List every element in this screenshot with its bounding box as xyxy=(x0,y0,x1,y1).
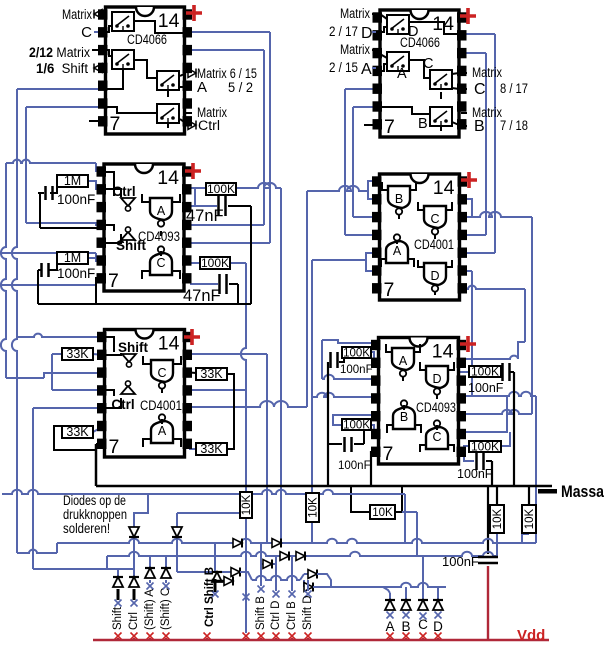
svg-text:Matrix: Matrix xyxy=(340,6,370,21)
svg-text:100K: 100K xyxy=(471,440,499,454)
wire long horizontal y494 from button diodes xyxy=(134,494,148,527)
svg-text:Matrix: Matrix xyxy=(472,65,502,80)
label U4 pin11 Matrix xyxy=(461,72,467,74)
capacitor 100nF IC6 upper-right xyxy=(501,363,504,381)
svg-text:10K: 10K xyxy=(492,508,504,529)
svg-text:7: 7 xyxy=(110,113,121,135)
wire 10K pair tops to bus xyxy=(496,486,498,505)
button column Ctrl D xyxy=(275,556,277,591)
wire corner into rail R1 xyxy=(17,550,57,553)
svg-text:14: 14 xyxy=(157,167,179,189)
button column (Shift) C xyxy=(165,556,167,568)
svg-text:100nF: 100nF xyxy=(442,554,479,569)
button column (Shift) A xyxy=(149,556,151,568)
diode inline R3 upper xyxy=(308,570,317,579)
switch U1d xyxy=(157,104,179,123)
capacitor 100nF IC6 lower-left xyxy=(343,437,346,452)
svg-text:C: C xyxy=(418,617,428,632)
svg-text:14: 14 xyxy=(158,333,180,355)
wire IC5 pin8 to IC6 pin13 xyxy=(465,286,525,289)
svg-text:A: A xyxy=(399,354,408,368)
svg-text:A: A xyxy=(385,619,394,634)
resistor 10K vertical x246 xyxy=(240,492,252,518)
svg-text:C: C xyxy=(157,366,166,380)
svg-text:14: 14 xyxy=(158,10,180,32)
capacitor 100nF IC6 upper-left xyxy=(329,352,332,368)
svg-text:D: D xyxy=(361,25,373,42)
wire 33K2 left black jog to ground riser xyxy=(54,426,96,450)
svg-text:10K: 10K xyxy=(372,507,393,519)
wire IC1 pin5 to left bus column x17 xyxy=(17,88,105,90)
wire IC6 pin4 left xyxy=(312,393,378,397)
IC U6 CD4093 bottom-right xyxy=(379,338,459,465)
power plus U4 xyxy=(460,8,476,24)
svg-text:C: C xyxy=(474,81,486,98)
diode between columns ShiftB CtrlD xyxy=(261,563,276,565)
svg-text:CD4001: CD4001 xyxy=(140,398,182,413)
svg-text:CD4001: CD4001 xyxy=(414,237,454,252)
wire IC1 pin12 to IC2 pin11 xyxy=(184,49,264,51)
svg-text:CD4066: CD4066 xyxy=(400,35,440,50)
svg-text:Shift B: Shift B xyxy=(255,596,267,630)
svg-text:Ctrl: Ctrl xyxy=(111,397,134,412)
resistor 33K IC3 upper-right xyxy=(196,368,227,380)
svg-text:B: B xyxy=(395,192,403,206)
button column Ctrl Shift B xyxy=(214,543,216,572)
svg-text:Shift D: Shift D xyxy=(302,595,314,630)
inverter Shift U2 xyxy=(121,232,135,240)
power plus U1 xyxy=(186,5,202,21)
wire IC6 pin7 to bus xyxy=(371,450,378,452)
gate C U5 xyxy=(424,206,446,228)
svg-text:47nF: 47nF xyxy=(183,287,221,305)
svg-text:Matrix: Matrix xyxy=(340,42,370,57)
svg-text:Shift: Shift xyxy=(112,606,124,630)
resistor 1M upper xyxy=(57,175,88,187)
button column A xyxy=(389,593,391,600)
svg-text:Ctrl: Ctrl xyxy=(198,118,220,133)
wire IC2 pin13 100K to long vertical x281 xyxy=(190,183,281,188)
wire IC2 pin12 tie xyxy=(190,188,195,206)
wire IC6 100K1 right to cap xyxy=(501,371,503,373)
wire 10K horizontal right black riser xyxy=(395,486,402,512)
svg-text:D: D xyxy=(433,619,443,634)
svg-text:7: 7 xyxy=(383,443,394,465)
IC U1 CD4066 top-left xyxy=(106,7,185,134)
svg-text:14: 14 xyxy=(433,177,455,199)
button column C from rail R2 xyxy=(422,556,424,600)
wire IC3 pin2 33K xyxy=(93,354,104,355)
svg-text:5 / 2: 5 / 2 xyxy=(228,80,253,95)
svg-text:33K: 33K xyxy=(66,425,89,439)
wire far-left vertical x6 down to IC3 pin3 xyxy=(1,170,6,378)
wire IC3 pin7 to ground bus xyxy=(96,443,104,445)
svg-text:A: A xyxy=(158,424,167,438)
Vdd decoupling red wire xyxy=(487,566,489,640)
svg-text:14: 14 xyxy=(432,341,454,363)
svg-text:1/6 Shift: 1/6 Shift xyxy=(36,61,88,76)
power plus U2 xyxy=(185,163,201,179)
svg-text:10K: 10K xyxy=(524,508,536,529)
svg-text:2/12 Matrix: 2/12 Matrix xyxy=(29,45,90,60)
capacitor 47nF upper xyxy=(217,196,220,216)
wire rail R3 lower branch xyxy=(303,580,305,587)
inverter Ctrl U3 xyxy=(121,386,135,394)
wire IC6 cap4 right to bus xyxy=(486,460,492,462)
svg-text:7 / 18: 7 / 18 xyxy=(500,118,528,133)
gate C U6 xyxy=(426,427,448,449)
wire IC5 pins1-2 tie xyxy=(368,181,379,199)
svg-text:100K: 100K xyxy=(201,256,229,270)
svg-text:7: 7 xyxy=(384,116,395,138)
diode down at x177 xyxy=(172,527,182,537)
switch U4d xyxy=(430,107,452,126)
resistor 100K IC6 lower-right xyxy=(469,441,501,452)
svg-text:100K: 100K xyxy=(471,365,499,379)
svg-text:47nF: 47nF xyxy=(186,207,224,225)
gate C U3 xyxy=(151,360,173,382)
svg-text:A: A xyxy=(393,244,402,258)
wire rail R2 y556 xyxy=(106,556,108,569)
svg-text:solderen!: solderen! xyxy=(63,521,110,536)
wire rail R1 y543 xyxy=(57,539,536,543)
diode inline R3 lower xyxy=(304,583,313,592)
svg-text:A: A xyxy=(197,79,207,96)
button column D xyxy=(437,587,439,600)
svg-text:B: B xyxy=(474,118,485,135)
wire IC5 pin1 route to IC3 pin10 xyxy=(368,181,379,191)
wire left to IC2 pin7 xyxy=(0,284,96,286)
wire ground bus xyxy=(96,485,552,488)
wire IC2 ground loop xyxy=(39,193,41,228)
wire 1M2 to IC2 pin6 xyxy=(88,258,96,261)
svg-text:100K: 100K xyxy=(343,348,370,360)
wire node left rail into IC2 pin1 with hops xyxy=(5,163,7,170)
button column Ctrl xyxy=(133,569,135,577)
wire IC3 pin5 to left column x33 xyxy=(33,407,104,409)
capacitor 100nF decoupling xyxy=(478,556,498,559)
switch U4c xyxy=(430,70,452,89)
wire IC6 pin11 horizontal with hops xyxy=(458,392,536,396)
svg-text:A: A xyxy=(397,66,407,82)
resistor 100K IC6 upper-right xyxy=(469,366,501,377)
wire IC6 cap3 right black to bus xyxy=(509,371,514,373)
resistor 100K IC2 upper xyxy=(206,183,236,195)
wire IC2 pin9 100K to vertical x246 down to 10K and Vdd xyxy=(190,262,246,264)
Vdd red bus xyxy=(93,639,549,642)
svg-text:D: D xyxy=(408,24,418,40)
svg-text:C: C xyxy=(156,256,165,270)
capacitor 100nF lower-left xyxy=(40,263,43,277)
switch U1b xyxy=(112,50,134,69)
capacitor 100nF IC6 lower-right xyxy=(475,452,478,470)
power plus U3 xyxy=(184,329,200,345)
svg-text:2 / 15: 2 / 15 xyxy=(329,60,358,75)
wire U4 pin7 stub xyxy=(364,124,373,126)
wire IC6 pin12 to 100K right xyxy=(458,371,469,373)
switch U1c xyxy=(157,71,179,90)
svg-text:2 / 17: 2 / 17 xyxy=(329,24,358,39)
button column x246 to Vdd xyxy=(243,594,250,601)
wire U5 internals xyxy=(382,182,387,190)
wire IC3 pin11 to x246 xyxy=(190,389,246,391)
resistor 10K vertical x312 xyxy=(306,493,319,522)
resistor 33K IC3 upper-left xyxy=(62,348,93,360)
wire IC6 pin2 to 100K xyxy=(371,352,378,361)
svg-text:33K: 33K xyxy=(66,347,89,361)
wire rail R4 y587 to right columns xyxy=(331,583,446,587)
resistor 10K horizontal xyxy=(370,505,395,519)
wire IC6 pin8 to cap xyxy=(458,450,474,461)
wire 33K2 right to IC3 pin6/8 xyxy=(93,426,104,432)
wire U1 internals xyxy=(134,21,184,33)
svg-text:100nF: 100nF xyxy=(457,467,493,481)
wire rail R1 corner to 10K B xyxy=(522,534,529,543)
wire IC2 cap2 leads xyxy=(38,269,42,271)
gate B U6 xyxy=(393,407,415,429)
switch U4b xyxy=(387,52,409,71)
capacitor 100nF upper-left xyxy=(44,186,47,200)
wire IC6 gnd vertical xyxy=(327,362,329,486)
wire U2 internals xyxy=(105,172,114,196)
wire IC1 pin13 to IC2 pin10 xyxy=(184,31,270,33)
IC U3 CD4001 bottom-left xyxy=(105,330,185,458)
diode inline R1 b xyxy=(272,539,281,548)
wire IC1 pin6 to IC2 pin4 xyxy=(26,106,105,108)
label U1 pin9 Matrix xyxy=(186,112,192,114)
svg-text:10K: 10K xyxy=(241,494,253,515)
label U4 pin10 C 8/17 xyxy=(461,88,467,90)
wire 10K horizontal right to vertical x417 xyxy=(402,511,417,513)
svg-text:Ctrl B: Ctrl B xyxy=(286,601,298,630)
resistor 33K IC3 lower-left xyxy=(62,426,93,438)
wire IC3 pin13 to vertical x267 xyxy=(190,353,267,355)
switch U1a xyxy=(112,12,134,31)
wire U6 internals xyxy=(386,344,391,352)
svg-text:Vdd: Vdd xyxy=(517,627,545,644)
diode inline R2 a xyxy=(280,552,289,561)
wire IC6 100K2/cap junction xyxy=(363,426,365,444)
svg-text:B: B xyxy=(400,410,408,424)
svg-text:Ctrl: Ctrl xyxy=(112,184,135,199)
svg-text:Ctrl Shift B: Ctrl Shift B xyxy=(204,567,216,627)
label U1 pin11 Matrix 6/15 xyxy=(188,69,196,78)
IC U5 CD4001 mid-right xyxy=(380,174,460,300)
power plus U5 xyxy=(461,172,477,188)
gate A U3 xyxy=(151,421,173,443)
svg-text:Ctrl: Ctrl xyxy=(128,612,140,630)
svg-text:7: 7 xyxy=(108,270,119,292)
wire IC4 pin12 to IC5 pin11 xyxy=(459,52,486,54)
switch U4a xyxy=(387,15,409,34)
resistor 100K IC2 lower xyxy=(200,257,230,269)
svg-text:Diodes op de: Diodes op de xyxy=(63,493,126,508)
wire IC6 pin1 loop xyxy=(322,340,378,343)
wire IC4 pin5 to IC5 pin4 xyxy=(345,88,380,90)
resistor 10K vertical right A xyxy=(490,505,504,533)
svg-text:100K: 100K xyxy=(207,182,235,196)
svg-text:33K: 33K xyxy=(200,442,223,456)
diode inline R3 left xyxy=(231,568,240,577)
wire U3 internals xyxy=(105,337,114,352)
wire 33K1 left to IC3 pin4 xyxy=(52,353,62,355)
svg-text:7: 7 xyxy=(384,279,395,301)
button column Ctrl B xyxy=(291,556,293,591)
svg-text:drukknoppen: drukknoppen xyxy=(63,507,127,522)
svg-text:C: C xyxy=(81,24,92,41)
resistor 33K IC3 lower-right xyxy=(196,443,227,455)
svg-text:Massa: Massa xyxy=(561,483,604,501)
svg-text:D: D xyxy=(430,269,439,283)
svg-text:8 / 17: 8 / 17 xyxy=(500,81,528,96)
svg-text:33K: 33K xyxy=(200,367,223,381)
label U4 pin9 Matrix xyxy=(461,112,467,114)
gate A U6 xyxy=(392,348,414,370)
svg-text:100nF: 100nF xyxy=(57,266,95,281)
wire rail R3 upper y572 xyxy=(177,571,236,573)
svg-text:A: A xyxy=(361,61,372,78)
wire rail R3 upper branch xyxy=(304,573,313,575)
capacitor 47nF lower xyxy=(218,274,221,294)
wire IC5 pin9 down to IC6 pin11 region xyxy=(465,270,472,272)
IC U2 CD4093 mid-left xyxy=(104,164,184,291)
svg-text:Matrix: Matrix xyxy=(62,7,92,22)
ground symbol Massa xyxy=(538,489,557,494)
svg-text:100K: 100K xyxy=(343,420,370,432)
resistor 10K vertical right B xyxy=(522,505,536,533)
svg-text:10K: 10K xyxy=(308,497,320,518)
svg-text:1M: 1M xyxy=(64,174,81,188)
wire IC6 pin6 to 100K right xyxy=(371,425,378,433)
svg-text:Shift: Shift xyxy=(118,340,148,355)
diode down at x134 xyxy=(129,527,139,537)
resistor 100K IC6 upper-left xyxy=(342,347,371,358)
svg-text:CD4066: CD4066 xyxy=(127,32,167,47)
gate A U2 xyxy=(150,198,172,220)
wire U4 internals xyxy=(409,22,459,34)
IC U4 CD4066 top-right xyxy=(380,10,459,137)
wire decoupling cap to bus xyxy=(487,486,489,554)
wire IC6 pin3 with hop over gnd xyxy=(322,375,378,379)
gate D U6 xyxy=(426,366,448,388)
wire 33K black link IC3 right xyxy=(184,372,196,373)
wire left to IC2 pin6 xyxy=(0,252,96,254)
gate C U2 xyxy=(150,253,172,275)
wire rail R3 y580 xyxy=(252,576,300,580)
label U1 pin8 Ctrl xyxy=(188,121,196,130)
gate B U5 xyxy=(388,186,410,208)
svg-text:100nF: 100nF xyxy=(57,192,95,207)
gate A U5 xyxy=(386,241,408,263)
wire IC5 pins12-13 to IC6 pin10 via x532 xyxy=(465,199,472,216)
gate D U5 xyxy=(424,263,446,285)
svg-text:C: C xyxy=(432,430,441,444)
svg-text:D: D xyxy=(432,372,441,386)
wire IC4 pin6 to IC5 pin3 xyxy=(353,106,380,108)
svg-text:100nF: 100nF xyxy=(340,364,373,376)
diode inline R2 b xyxy=(296,552,305,561)
svg-text:(Shift) A: (Shift) A xyxy=(144,589,156,630)
label U1 pin10 A 5/2 xyxy=(186,86,192,88)
wire U1 pin7 stub xyxy=(89,120,98,122)
svg-text:(Shift) C: (Shift) C xyxy=(160,588,172,630)
resistor 100K IC6 lower-left xyxy=(342,419,371,430)
resistor 1M lower xyxy=(57,252,88,264)
wire IC6 cap2 leads xyxy=(328,443,342,445)
svg-text:100nF: 100nF xyxy=(338,460,371,472)
power plus U6 xyxy=(460,336,476,352)
wire IC5 pins5-6 tie to vertical x312 xyxy=(366,253,379,271)
wire IC4 pin13 to IC5 pin10 xyxy=(459,33,495,35)
button column B xyxy=(405,587,407,600)
wire rail R0 y569 xyxy=(33,568,134,570)
svg-text:B: B xyxy=(401,619,410,634)
svg-text:100nF: 100nF xyxy=(468,381,504,395)
wire IC6 100K2 connections xyxy=(464,446,469,450)
diode inline R1 a xyxy=(233,539,242,548)
svg-text:CD4093: CD4093 xyxy=(416,400,456,415)
wire diode x177 to H513 xyxy=(176,513,178,527)
svg-text:C: C xyxy=(430,212,439,226)
svg-text:A: A xyxy=(157,204,166,218)
wire 10K horizontal left to bus xyxy=(351,486,370,512)
wire 1M1 to IC2 pin2 xyxy=(88,181,104,189)
wire IC3 pin1 to left column x17 xyxy=(17,334,104,337)
button column Shift B xyxy=(260,543,262,586)
svg-text:7: 7 xyxy=(109,436,120,458)
svg-text:B: B xyxy=(418,116,428,132)
svg-text:1M: 1M xyxy=(64,251,81,265)
button column Shift D xyxy=(307,580,309,591)
wire IC2 cap1 leads xyxy=(38,192,43,194)
button column Shift xyxy=(117,569,119,577)
wire IC6 pin5 to lower 100K/cap xyxy=(333,415,378,425)
label U4 pin8 B 7/18 xyxy=(461,125,467,127)
svg-text:Ctrl D: Ctrl D xyxy=(270,601,282,630)
